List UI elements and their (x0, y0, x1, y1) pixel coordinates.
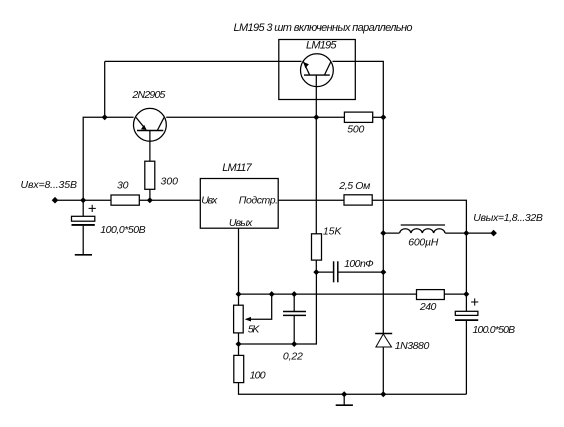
node (380, 114, 386, 120)
wire: 100nФ left lead (316, 271, 333, 273)
IC U1 LM117 box (200, 179, 278, 229)
svg-text:LM195 3 шт включенных параллел: LM195 3 шт включенных параллельно (234, 22, 413, 34)
wire: LM195 collector to right bus corner (333, 61, 384, 117)
svg-text:Uвх=8...35В: Uвх=8...35В (21, 179, 78, 191)
wire (149, 189, 151, 200)
wire (105, 60, 302, 62)
wire (139, 199, 200, 201)
svg-text:LM195: LM195 (306, 40, 337, 52)
wire: 2N2905 collector row to 500 resistor (166, 116, 344, 118)
node: diode ground (380, 391, 386, 397)
node (269, 291, 275, 297)
wire: right bus down to diode (382, 272, 384, 333)
svg-text:500: 500 (347, 123, 364, 135)
wire: bottom feedback row to 100nФ node column (239, 272, 317, 344)
svg-text:2N2905: 2N2905 (131, 89, 165, 101)
diode VD1 1N3880 (375, 334, 392, 395)
wire (444, 293, 466, 295)
wire: LM117 Uвых pin down (238, 228, 240, 305)
svg-text:100.0*50В: 100.0*50В (473, 324, 516, 336)
node: input junction (80, 197, 86, 203)
capacitor C2 100.0*50В (output electrolytic) (455, 298, 478, 394)
svg-text:100,0*50В: 100,0*50В (100, 224, 146, 236)
wire: adjust row (239, 293, 417, 295)
node (236, 341, 242, 347)
svg-text:100: 100 (250, 369, 266, 381)
resistor 2,5 Ом (344, 195, 372, 205)
wire: 2N2905 base lead (149, 131, 151, 162)
wire to output terminal (466, 232, 493, 234)
LM195 module box (279, 40, 356, 100)
wire: emitter top wire from node at x=105 to LM195 circle (104, 61, 106, 117)
node: 30/300 junction (147, 197, 153, 203)
wire (238, 333, 240, 356)
node (313, 269, 319, 275)
node: emitter wire junction (102, 114, 108, 120)
wire: 2N2905 emitter wire to left, down to input rail (83, 117, 133, 200)
svg-text:Uвых: Uвых (229, 217, 253, 229)
svg-text:15K: 15K (323, 225, 342, 237)
wire: input rail (55, 199, 111, 201)
svg-text:100nФ: 100nФ (344, 258, 374, 270)
capacitor 100nФ (334, 261, 338, 282)
potentiometer 5K (234, 294, 272, 333)
node (313, 114, 319, 120)
svg-text:Uвх: Uвх (201, 194, 218, 206)
svg-text:2,5 Ом: 2,5 Ом (338, 180, 370, 192)
wire: output column down to output cap (465, 294, 467, 311)
resistor 15K (312, 234, 322, 260)
node: inductor right (463, 230, 469, 236)
svg-text:5K: 5K (248, 324, 260, 336)
resistor 240 (417, 290, 445, 300)
wire: right bus down from 500 row to inductor node (382, 117, 384, 233)
node (236, 291, 242, 297)
wire: LM195 base lead down to 15K top (315, 75, 317, 234)
transistor U2 LM195 (NPN in box) (301, 54, 334, 87)
node: ground stub (341, 391, 347, 397)
wire: right bus inductor node to 100nФ node (382, 233, 384, 272)
wire (315, 260, 317, 272)
svg-text:600µH: 600µH (408, 236, 438, 248)
wire: output column from inductor node down (465, 233, 467, 294)
svg-text:LM117: LM117 (222, 162, 252, 174)
transistor Q1 2N2905 (PNP) (134, 108, 167, 141)
output terminal (490, 230, 497, 237)
resistor 100 (234, 355, 244, 382)
resistor 30 (111, 195, 139, 205)
node (380, 269, 386, 275)
resistor 500 (344, 112, 372, 122)
svg-text:Uвых=1,8...32В: Uвых=1,8...32В (473, 212, 543, 224)
ground symbol (336, 394, 353, 405)
resistor 300 (145, 161, 155, 189)
wire (373, 116, 384, 118)
svg-text:300: 300 (161, 176, 179, 188)
capacitor 0,22 (283, 294, 306, 344)
svg-text:0,22: 0,22 (283, 350, 303, 362)
capacitor C1 100,0*50В (input electrolytic) (72, 200, 96, 255)
input terminal (52, 197, 59, 204)
wire: ground rail (239, 383, 467, 395)
inductor L1 600µH (383, 225, 466, 233)
node (291, 291, 297, 297)
node (463, 291, 469, 297)
svg-text:240: 240 (419, 301, 437, 313)
wire: 2,5 Ом to output corner (372, 200, 466, 233)
svg-text:1N3880: 1N3880 (395, 340, 430, 352)
wire: Подстр output to 2,5 Ом (278, 199, 344, 201)
svg-text:Подстр.: Подстр. (239, 194, 278, 206)
wire: 100nФ right lead (338, 271, 384, 273)
svg-text:30: 30 (117, 180, 129, 192)
node: 0,22 bottom junction (291, 341, 297, 347)
node: inductor left (380, 230, 386, 236)
